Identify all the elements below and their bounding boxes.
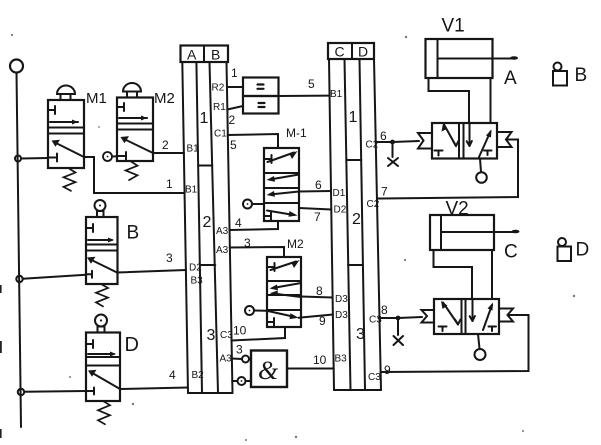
svg-text:A: A — [187, 47, 197, 63]
svg-text:A: A — [504, 68, 517, 89]
scan edge artifacts — [0, 285, 2, 438]
svg-text:4: 4 — [235, 216, 242, 230]
svg-text:2: 2 — [203, 214, 212, 231]
label 8 — [316, 284, 323, 298]
svg-text:R1: R1 — [213, 102, 226, 113]
wire M1 output line 1 — [84, 157, 185, 193]
wire bus to M2 bottom line 10 — [231, 327, 285, 341]
svg-text:D2: D2 — [189, 263, 202, 274]
valve B roller 3/2 — [86, 200, 118, 306]
svg-text:5: 5 — [308, 77, 315, 91]
label 2 — [229, 113, 236, 127]
AND input top circle — [232, 356, 251, 363]
wire cylinder V1 left port pipe — [429, 78, 470, 123]
svg-text:4: 4 — [169, 368, 176, 382]
svg-text:B1: B1 — [185, 185, 198, 196]
wire junction to V1 pilot — [393, 141, 420, 142]
svg-text:M1: M1 — [86, 90, 107, 107]
pilot port circle M-1 — [243, 200, 264, 209]
identity element boxes — [243, 78, 279, 114]
label M-1 — [286, 126, 307, 140]
label 10 — [233, 324, 247, 338]
label step 2 — [352, 211, 361, 228]
svg-text:D: D — [576, 240, 590, 261]
svg-text:3: 3 — [244, 236, 251, 250]
svg-text:M-1: M-1 — [286, 126, 307, 140]
label 5 — [308, 77, 315, 91]
label 9 — [384, 363, 391, 377]
label A — [504, 68, 517, 89]
node junction V1 pilot — [390, 140, 395, 145]
bus CD right port labels — [366, 140, 383, 384]
svg-text:B: B — [211, 47, 220, 63]
svg-text:B: B — [127, 223, 140, 244]
label B — [575, 65, 588, 86]
valve M1 pushbutton 3/2 — [48, 86, 84, 191]
sequencer bus CD header — [328, 43, 374, 60]
svg-text:D3: D3 — [335, 294, 348, 305]
svg-text:1: 1 — [231, 66, 238, 80]
memory valve M-1 — [264, 148, 299, 221]
bus AB right port labels — [212, 83, 234, 365]
label step 3 — [356, 326, 365, 343]
bus AB left port labels — [185, 144, 204, 382]
svg-text:C: C — [335, 44, 345, 60]
wire M2 line 8 to bus CD — [301, 297, 333, 298]
svg-text:A3: A3 — [216, 245, 229, 256]
svg-text:3: 3 — [166, 251, 173, 265]
svg-text:M2: M2 — [154, 90, 175, 107]
wire AND output line 10 to bus CD — [287, 368, 334, 370]
exhaust X symbol V2 — [394, 321, 404, 346]
wire junction to V2 pilot — [398, 317, 422, 318]
wire M2 output line 2 — [153, 152, 184, 154]
svg-text:B3: B3 — [335, 354, 348, 365]
pilot V2 right — [499, 309, 513, 322]
wire V2 right pilot loop line 9 — [381, 315, 529, 372]
sequencer bus CD columns — [329, 59, 381, 390]
label 3 — [244, 236, 251, 250]
limit switch icon B — [553, 63, 567, 86]
svg-text:2: 2 — [352, 211, 361, 228]
svg-text:7: 7 — [381, 185, 388, 199]
label step 2 — [203, 214, 212, 231]
svg-text:10: 10 — [313, 353, 327, 367]
wire valve B output line 3 — [117, 270, 186, 273]
label 1 — [231, 66, 238, 80]
wire bus to M-1 bottom — [229, 221, 278, 230]
svg-text:5: 5 — [230, 138, 237, 152]
label M1 — [86, 90, 107, 107]
wire bus to M-1 top — [228, 134, 278, 148]
wire valve D output line 4 — [120, 388, 188, 390]
svg-text:M2: M2 — [287, 237, 304, 251]
label 6 — [315, 178, 322, 192]
cylinder V2 — [430, 215, 520, 250]
wire bus to identity box1 — [227, 86, 243, 88]
node junction to M1 — [15, 156, 21, 162]
label M2 — [154, 90, 175, 107]
wire supply rail vertical — [17, 73, 22, 428]
sequencer bus AB header — [181, 46, 229, 63]
label 9 — [319, 314, 326, 328]
limit switch icon D — [558, 238, 572, 261]
valve V1 5/2 — [432, 123, 497, 159]
svg-text:6: 6 — [380, 129, 387, 143]
pilot V1 right — [497, 132, 512, 147]
svg-text:R2: R2 — [212, 83, 225, 94]
svg-text:3: 3 — [207, 327, 216, 344]
svg-text:8: 8 — [381, 303, 388, 317]
svg-text:C2: C2 — [367, 199, 380, 210]
cylinder V1 — [426, 39, 519, 78]
valve D roller 3/2 — [86, 315, 120, 425]
label M2 — [287, 237, 304, 251]
svg-text:B2: B2 — [192, 370, 205, 381]
label 8 — [381, 303, 388, 317]
wire identity output line 5 to bus CD — [279, 95, 330, 97]
label D — [125, 334, 139, 356]
svg-text:3: 3 — [356, 326, 365, 343]
svg-text:B1: B1 — [187, 144, 200, 155]
svg-text:10: 10 — [233, 324, 247, 338]
node junction to valve B — [16, 276, 22, 282]
exhaust circle V1 — [476, 159, 487, 183]
label V2 — [446, 199, 469, 220]
label 2 — [162, 138, 169, 152]
label 7 — [314, 210, 321, 224]
wire M2 line 9 to bus CD — [299, 315, 333, 318]
wire bus to identity box2 — [227, 106, 243, 110]
svg-text:1: 1 — [349, 109, 358, 126]
label 7 — [381, 185, 388, 199]
svg-text:7: 7 — [314, 210, 321, 224]
pilot V1 left — [418, 133, 432, 149]
svg-text:D3: D3 — [335, 310, 348, 321]
label D — [576, 240, 590, 261]
air supply source circle — [10, 60, 23, 73]
svg-text:C1: C1 — [214, 129, 227, 140]
exhaust circle V2 — [475, 334, 486, 360]
node junction to valve D — [18, 389, 24, 395]
svg-text:B: B — [575, 65, 588, 86]
label 3 — [166, 251, 173, 265]
svg-text:6: 6 — [315, 178, 322, 192]
svg-text:8: 8 — [316, 284, 323, 298]
svg-text:D1: D1 — [333, 188, 346, 199]
AND gate — [251, 351, 287, 388]
label 3 — [236, 343, 243, 357]
wire supply to valve D — [24, 390, 86, 393]
wire cylinder V2 right port pipe — [491, 250, 493, 299]
label 4 — [235, 216, 242, 230]
label 6 — [380, 129, 387, 143]
label B — [127, 223, 140, 244]
svg-text:C: C — [504, 242, 518, 263]
wire supply to valve B — [23, 275, 86, 279]
svg-text:9: 9 — [319, 314, 326, 328]
svg-text:D: D — [358, 44, 368, 60]
wire cylinder V2 left port pipe — [434, 250, 473, 299]
wire bus to M2 top line 3 — [230, 247, 284, 257]
svg-text:D: D — [125, 334, 139, 356]
svg-text:2: 2 — [162, 138, 169, 152]
pilot port circle M2 — [103, 152, 117, 161]
label 10 — [313, 353, 327, 367]
memory valve M2 — [267, 257, 301, 327]
svg-text:1: 1 — [200, 110, 209, 127]
pilot V2 left — [422, 310, 435, 323]
svg-text:C3: C3 — [220, 330, 233, 341]
svg-text:&: & — [258, 356, 279, 385]
exhaust X symbol V1 — [388, 145, 398, 167]
wire M-1 line 7 to bus CD — [299, 208, 331, 210]
AND input bottom circle — [232, 377, 251, 385]
label 1 — [166, 177, 173, 191]
svg-text:1: 1 — [166, 177, 173, 191]
svg-text:C3: C3 — [368, 372, 381, 383]
label step 1 — [349, 109, 358, 126]
svg-text:V2: V2 — [446, 199, 469, 220]
label step 1 — [200, 110, 209, 127]
wire bus CD to V1 pilot line 6 — [376, 141, 393, 143]
svg-text:A3: A3 — [220, 354, 233, 365]
svg-text:D2: D2 — [334, 205, 347, 216]
node junction V2 pilot — [396, 316, 401, 321]
svg-text:9: 9 — [384, 363, 391, 377]
bus CD left port labels — [330, 89, 348, 365]
wire M-1 line 6 to bus CD — [299, 190, 331, 193]
label step 3 — [207, 327, 216, 344]
label C — [504, 242, 518, 263]
svg-text:A3: A3 — [216, 226, 229, 237]
label 4 — [169, 368, 176, 382]
label V1 — [442, 16, 465, 37]
svg-text:3: 3 — [236, 343, 243, 357]
pilot port circle M2 memory — [245, 306, 267, 315]
valve M2 pushbutton 3/2 — [117, 83, 153, 180]
wire supply to valve M1 — [21, 157, 48, 160]
wire V1 right pilot loop line 7 — [377, 140, 518, 199]
wire bus CD to V2 pilot line 8 — [379, 317, 399, 319]
svg-text:2: 2 — [229, 113, 236, 127]
svg-text:V1: V1 — [442, 16, 465, 37]
label 5 — [230, 138, 237, 152]
svg-text:B1: B1 — [330, 89, 343, 100]
svg-text:B3: B3 — [191, 276, 204, 287]
valve V2 5/2 — [434, 299, 499, 334]
sequencer bus AB columns — [182, 62, 232, 393]
wire cylinder V1 right port pipe — [490, 78, 492, 123]
